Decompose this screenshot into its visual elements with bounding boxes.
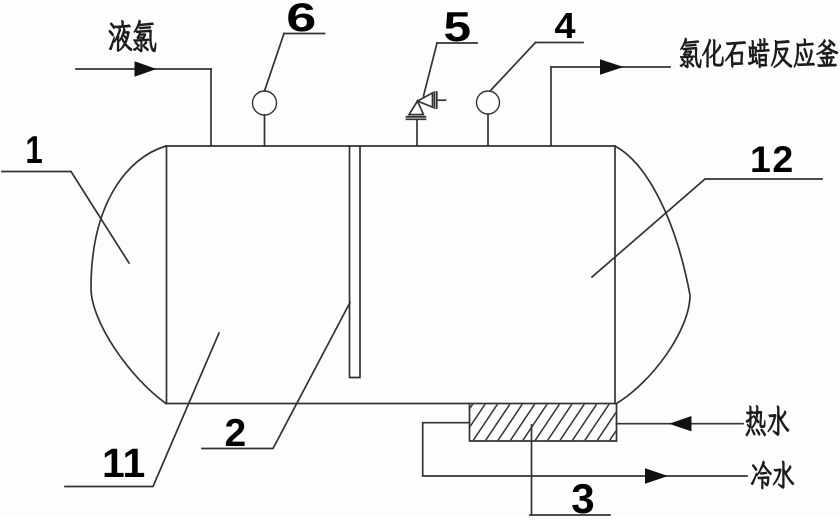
svg-text:2: 2 xyxy=(225,412,247,455)
svg-text:3: 3 xyxy=(571,475,594,516)
svg-text:12: 12 xyxy=(750,138,795,180)
svg-text:6: 6 xyxy=(286,0,316,40)
svg-text:5: 5 xyxy=(444,3,472,51)
svg-text:4: 4 xyxy=(555,6,577,46)
svg-text:11: 11 xyxy=(102,440,145,486)
svg-text:1: 1 xyxy=(25,129,42,172)
